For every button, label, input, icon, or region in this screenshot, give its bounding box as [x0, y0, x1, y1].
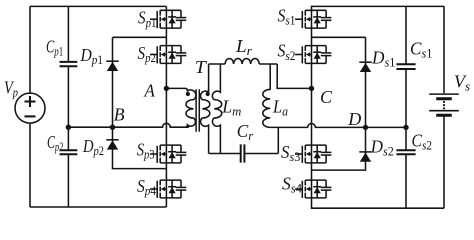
wire Cs branch [405, 6, 407, 208]
transistor Ss3 [295, 145, 331, 163]
svg-text:B: B [114, 104, 125, 124]
wire top rail left [30, 6, 166, 10]
wire bottom rail left [30, 198, 166, 207]
wire right leg Ss2 to C to Ss3 [311, 63, 313, 145]
wire tank top rail [209, 63, 278, 65]
transformer T primary winding [166, 88, 196, 127]
svg-text:D: D [347, 109, 361, 129]
wire Cr bottom rail [209, 153, 279, 155]
transistor Ss4 [295, 180, 331, 198]
junction clamp chain node B [110, 125, 115, 130]
wire clamp top left [113, 37, 167, 127]
wire clamp bottom right [312, 127, 366, 170]
battery Vs [429, 94, 459, 115]
svg-text:A: A [144, 80, 156, 100]
transistor Ss2 [295, 46, 331, 64]
junction Cp midpoint node B [66, 125, 71, 130]
transistor Ss1 [295, 10, 331, 28]
wire D rail to Cr rail [277, 127, 279, 153]
wire node B rail with crossover [68, 123, 188, 127]
capacitor Cp2 [60, 150, 78, 154]
voltage source Vp [15, 93, 45, 123]
transistor Sp4 [150, 180, 186, 198]
wire Cp branch [67, 6, 69, 207]
capacitor Cs2 [396, 150, 415, 154]
wire bottom rail right [312, 198, 445, 208]
inductor Lr [225, 58, 259, 64]
diode Dp2 [106, 139, 118, 141]
capacitor Cs1 [396, 64, 415, 69]
wire clamp top right [312, 37, 366, 127]
transformer T core [196, 89, 199, 131]
transistor Sp2 [150, 46, 186, 64]
node C [309, 86, 314, 91]
junction Cs midpoint node D [403, 125, 408, 130]
wire left source rail [29, 6, 31, 207]
wire right battery rail [443, 6, 445, 208]
wire left leg Sp2 to A to Sp3 [165, 63, 167, 145]
wire tank to node C [277, 64, 311, 88]
inductor La [263, 64, 270, 127]
node A [164, 86, 169, 91]
diode Ds1 [359, 61, 371, 63]
wire clamp bottom left [113, 127, 167, 168]
wire left leg between Sp1 Sp2 [165, 28, 167, 45]
wire right leg between Ss3 Ss4 [311, 163, 313, 180]
wire left leg between Sp3 Sp4 [165, 163, 167, 180]
diode Ds2 [359, 151, 371, 153]
wire top rail right [312, 6, 445, 10]
wire right leg between Ss1 Ss2 [311, 28, 313, 45]
capacitor Cr [241, 144, 245, 162]
svg-text:C: C [320, 87, 333, 107]
transistor Sp3 [150, 145, 186, 163]
wire node D rail with crossover [270, 123, 406, 127]
transistor Sp1 [150, 10, 186, 28]
diode Dp1 [106, 60, 118, 62]
inductor Lm [212, 64, 221, 154]
node D [363, 125, 368, 130]
capacitor Cp1 [60, 62, 78, 66]
transformer T secondary winding [200, 64, 209, 154]
